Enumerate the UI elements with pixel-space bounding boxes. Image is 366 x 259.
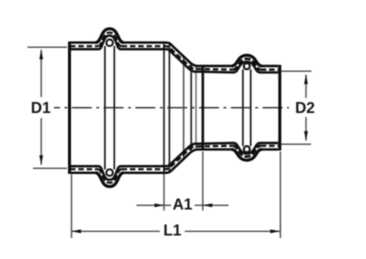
svg-text:A1: A1: [173, 196, 193, 213]
svg-text:D2: D2: [295, 100, 315, 117]
svg-text:D1: D1: [31, 100, 51, 117]
svg-text:L1: L1: [163, 222, 181, 239]
